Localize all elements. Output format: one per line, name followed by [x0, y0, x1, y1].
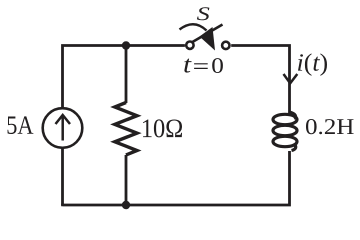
current source I1 arrow	[56, 115, 71, 141]
switch S closing arrowhead	[200, 27, 216, 51]
label 10ohm	[143, 119, 182, 137]
resistor R 10ohm zigzag	[115, 103, 137, 156]
switch S right terminal circle	[222, 42, 229, 49]
current source I1 circle	[43, 108, 83, 148]
wire middle branch top	[125, 46, 128, 104]
current direction arrow i(t) chevron	[284, 74, 298, 83]
switch S left terminal circle	[186, 42, 193, 49]
label i(t)	[298, 53, 327, 76]
wire left branch up + top rail left segment	[63, 46, 185, 108]
wire left vertical bottom	[61, 149, 64, 205]
node junction dot top	[122, 41, 130, 49]
wire middle branch bottom	[125, 155, 128, 205]
label S	[197, 7, 210, 20]
inductor L 0.2H coil	[273, 112, 297, 151]
label 0.2H	[306, 119, 354, 134]
wire bottom rail + right branch lower segment	[63, 151, 290, 206]
label 5A	[8, 116, 34, 134]
wire top rail right segment + right branch down	[231, 46, 289, 114]
node junction dot bottom	[122, 201, 130, 209]
label t = 0	[184, 59, 191, 73]
switch S closing motion arc	[180, 24, 207, 30]
switch S blade	[192, 25, 223, 43]
